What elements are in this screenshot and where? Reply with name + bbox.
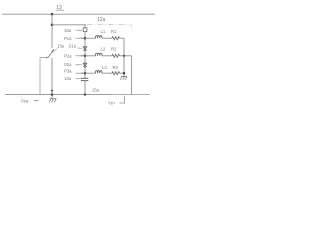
node row3 merge junction [123,72,126,75]
label P3a with arrow [64,69,84,75]
svg-text:P1a: P1a [64,36,72,41]
wire right merge vertical [123,38,125,76]
svg-text:L3: L3 [102,65,107,70]
wire row1 to corner [120,37,125,39]
wire capacitor to bottom rail [84,81,86,95]
svg-text:Vsa: Vsa [21,99,29,104]
node P3a junction [84,72,87,75]
switch 13a blade [48,49,55,58]
row 1 : wire from bus [85,37,96,39]
wire row2 to right corner [120,55,132,57]
inductor L2 [95,53,102,56]
node row2 crossing merge [123,55,125,57]
svg-text:L2: L2 [101,46,106,51]
wire bus segment below diode S1a [84,50,86,63]
ground chassis right [120,76,127,79]
wire row3 to merge node [120,72,125,74]
wire bottom rail right lighter segment [112,94,150,96]
wire right return vertical to rail [131,56,133,95]
label Vsa with arrow [21,99,39,104]
node junction trunk / branch wire [51,24,54,27]
svg-text:P2a: P2a [64,54,72,59]
wire branch to bus [52,24,86,26]
node junction top rail / trunk [51,13,54,16]
svg-text:13a: 13a [57,43,65,48]
label 14a with arrow [64,76,81,81]
svg-text:S2a: S2a [64,62,72,67]
label S1a with arrow [69,43,82,48]
diode S1a [83,47,87,51]
wire trunk vertical [51,14,53,48]
ground chassis left [49,95,56,103]
svg-text:S1a: S1a [69,43,77,48]
boundary 12a dash-dot right corner [131,24,133,32]
resistor R3 [112,72,120,75]
wire switch control line down [39,57,41,94]
svg-text:Vs+: Vs+ [108,101,116,106]
svg-text:L1: L1 [101,29,106,34]
node 13 label [56,5,65,11]
switch control arrow [40,57,49,59]
node trunk lower blob [51,90,53,92]
fuse 16a box on bus [83,28,87,32]
svg-text:R2: R2 [111,46,117,51]
svg-text:16a: 16a [64,28,72,33]
wire bus upper segment [84,25,86,28]
wire row1 mid [102,37,112,39]
wire row3 mid [102,72,112,74]
node P1a junction [84,37,87,40]
wire row2 mid [102,55,112,57]
wire trunk below switch [51,58,53,95]
label P1a with arrow [64,36,84,41]
label 16a with leader [64,28,82,33]
row 2 : wire from bus [85,55,96,57]
svg-text:12a: 12a [97,17,106,23]
label S2a with arrow [64,62,82,67]
resistor R1 [112,37,120,40]
wire top supply rail [2,13,155,15]
diode S2a [83,63,87,66]
wire bus segment below diode S2a [84,67,86,79]
resistor R2 [112,54,120,57]
svg-text:15a: 15a [92,87,100,92]
svg-text:R1: R1 [111,29,117,34]
row 3 : wire from bus [85,72,96,74]
boundary 12a dash-dot top edge [87,23,130,25]
svg-text:14a: 14a [64,76,72,81]
label P2a with arrow [64,54,84,59]
capacitor 14a [81,78,89,80]
svg-text:R3: R3 [113,65,119,70]
label 13a with leader to switch [51,43,65,53]
inductor L3 [95,71,102,74]
inductor L1 [95,36,102,39]
wire bottom supply rail [5,94,112,96]
node trunk / bottom rail [51,93,54,96]
svg-text:P3a: P3a [64,69,72,74]
label Vs+ with leader to rail [108,96,125,106]
node capacitor / bottom rail [84,93,86,95]
node P2a junction [84,55,87,58]
wire bus segment below fuse [84,32,86,47]
